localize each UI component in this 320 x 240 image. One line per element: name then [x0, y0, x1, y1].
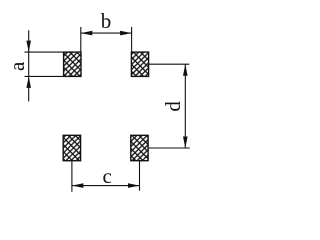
- dim d arrow bottom (points down): [183, 137, 188, 149]
- dim a extension line top: [25, 51, 64, 53]
- pad top-right: [131, 52, 148, 76]
- svg-text:d: d: [161, 101, 185, 112]
- dim d extension line top: [149, 63, 190, 65]
- dim b arrow right (points right): [120, 31, 132, 36]
- pad bottom-right: [131, 135, 148, 160]
- dim d extension line bottom: [148, 147, 190, 149]
- dim a dimension line: [28, 30, 30, 101]
- dim d arrow top (points up): [183, 64, 188, 76]
- dim c arrow right (points right): [128, 183, 140, 188]
- dim a arrow top (points down): [26, 41, 31, 53]
- dim b extension line left: [80, 27, 82, 52]
- svg-text:a: a: [5, 61, 29, 71]
- pad top-left: [64, 52, 81, 76]
- dim c extension line right: [139, 161, 141, 191]
- svg-text:c: c: [103, 164, 112, 188]
- dim d dimension line: [184, 64, 186, 148]
- dim c arrow left (points left): [72, 183, 84, 188]
- dim b extension line right: [131, 27, 133, 52]
- svg-text:b: b: [101, 9, 112, 33]
- dim b arrow left (points left): [81, 31, 93, 36]
- pad bottom-left: [63, 135, 80, 160]
- dim b dimension line: [81, 32, 132, 34]
- dim a arrow bottom (points up): [26, 76, 31, 88]
- dim a extension line bottom: [25, 75, 64, 77]
- dim c extension line left: [71, 161, 73, 192]
- dim c dimension line: [72, 185, 140, 187]
